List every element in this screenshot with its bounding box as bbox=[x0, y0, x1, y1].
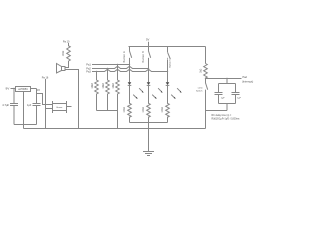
wire 5V top rail bbox=[129, 46, 206, 48]
svg-text:100Ω: 100Ω bbox=[124, 107, 126, 113]
wire regulator ground pin bbox=[23, 92, 25, 129]
wire speaker to ground rail bbox=[65, 70, 79, 129]
svg-text:Limit: Limit bbox=[198, 87, 203, 90]
node Pa 16 label bbox=[42, 76, 49, 79]
wire Pa3 bus with hops bbox=[92, 69, 168, 71]
node 5V supply label bbox=[146, 38, 149, 42]
svg-text:100Ω: 100Ω bbox=[162, 107, 164, 113]
capacitor C3 1uF bbox=[215, 84, 226, 104]
resistor R7 10k pulldown bbox=[112, 65, 119, 111]
svg-text:1µF: 1µF bbox=[237, 97, 241, 99]
svg-text:RC delay time (s) =: RC delay time (s) = bbox=[212, 114, 232, 117]
svg-text:100Ω: 100Ω bbox=[63, 50, 65, 56]
resistor R1 100 ohm (LED A) bbox=[124, 85, 131, 122]
junction cap bank bbox=[226, 78, 227, 79]
wire regulator output bbox=[31, 88, 37, 90]
svg-text:10kΩ: 10kΩ bbox=[102, 83, 105, 89]
wire pulldown common bbox=[97, 111, 118, 129]
svg-text:100Ω: 100Ω bbox=[143, 107, 145, 113]
svg-text:10kΩ: 10kΩ bbox=[91, 83, 94, 89]
note RC delay formula bbox=[212, 114, 241, 120]
node Pa2 label bbox=[86, 68, 91, 71]
wire cap bank bottom bbox=[219, 104, 236, 111]
switch Button C bbox=[167, 47, 172, 72]
capacitor C2 1uF bbox=[27, 89, 40, 125]
LED D3 bbox=[166, 82, 182, 99]
junction Pa3 / branch C bbox=[167, 71, 168, 72]
wire to ground symbol bbox=[148, 123, 150, 152]
wire branch A bbox=[129, 65, 131, 83]
svg-text:Switch: Switch bbox=[196, 90, 203, 93]
wire branch C bbox=[167, 72, 169, 83]
resistor R4 100 ohm (speaker) bbox=[63, 43, 70, 61]
resistor R5 10k pulldown bbox=[91, 72, 98, 111]
svg-text:5V: 5V bbox=[36, 88, 41, 92]
wire LED common bbox=[130, 122, 168, 124]
wire caps bottom rail bbox=[14, 124, 37, 126]
svg-text:1µF: 1µF bbox=[27, 104, 32, 107]
junction C1 top bbox=[13, 88, 14, 89]
wire 5V stub bbox=[148, 42, 150, 47]
wire ground rail bbox=[24, 128, 206, 130]
LED D1 bbox=[128, 82, 144, 99]
svg-text:Button B: Button B bbox=[142, 51, 145, 63]
svg-text:Buzzer: Buzzer bbox=[57, 106, 63, 109]
svg-text:(Interrupt): (Interrupt) bbox=[242, 79, 253, 83]
node Pa1 label bbox=[86, 64, 91, 67]
svg-text:Pad: Pad bbox=[243, 76, 248, 79]
wire interrupt node to pad bbox=[206, 78, 242, 80]
svg-text:10kΩ: 10kΩ bbox=[112, 83, 115, 89]
wire branch B bbox=[148, 69, 150, 83]
resistor R2 100 ohm (LED B) bbox=[143, 85, 150, 122]
node Pa 10 label bbox=[63, 40, 70, 43]
wire 5V branch to buzzer bbox=[37, 94, 53, 105]
node Pad (Interrupt) label bbox=[242, 76, 253, 83]
ground bbox=[143, 152, 154, 156]
switch SW4 limit switch bbox=[196, 79, 208, 111]
node 9V label bbox=[6, 87, 11, 91]
speaker LS1 bbox=[57, 64, 66, 74]
svg-text:Button C: Button C bbox=[169, 59, 172, 68]
junction 5V rail bbox=[148, 46, 149, 47]
svg-text:1kΩ: 1kΩ bbox=[201, 68, 203, 72]
capacitor C4 1uF bbox=[232, 84, 242, 104]
junction ground rail bbox=[148, 128, 149, 129]
resistor R6 10k pulldown bbox=[102, 69, 109, 111]
buzzer LS2 bbox=[53, 101, 72, 113]
svg-text:Button A: Button A bbox=[123, 51, 126, 63]
resistor R3 100 ohm (LED C) bbox=[162, 85, 169, 122]
LED D2 bbox=[147, 82, 163, 99]
wire Pa2 bus with hops bbox=[92, 66, 149, 68]
svg-text:1µF: 1µF bbox=[221, 97, 225, 99]
svg-text:Pa1: Pa1 bbox=[86, 64, 91, 67]
node Pa3 label bbox=[86, 71, 91, 74]
svg-text:Pa 16: Pa 16 bbox=[42, 76, 49, 79]
node 5V label (regulator output) bbox=[36, 88, 41, 92]
svg-text:Pa 10: Pa 10 bbox=[63, 40, 70, 43]
junction Pa1 / R7 bbox=[117, 64, 118, 65]
junction interrupt node bbox=[205, 78, 206, 79]
svg-text:5V: 5V bbox=[146, 38, 149, 42]
wire Pa1 bus bbox=[92, 64, 130, 66]
svg-text:Pa3: Pa3 bbox=[86, 71, 91, 74]
svg-text:9V: 9V bbox=[6, 87, 11, 91]
capacitor C1 4.7uF bbox=[2, 89, 18, 125]
switch Button A bbox=[123, 47, 132, 65]
junction Pa3 / R5 bbox=[96, 71, 97, 72]
switch Button B bbox=[142, 47, 151, 69]
regulator U1 uA7805 bbox=[16, 87, 31, 92]
svg-text:R(kΩ)*(1µF+1µF) / 1000ms: R(kΩ)*(1µF+1µF) / 1000ms bbox=[212, 119, 241, 121]
junction Pa1 / branch A bbox=[129, 64, 130, 65]
junction regulator gnd / cap rail bbox=[23, 124, 24, 125]
resistor R8 1k bbox=[201, 64, 208, 79]
wire 9V to regulator bbox=[11, 88, 16, 90]
wire limit switch to ground rail bbox=[206, 111, 228, 129]
wire cap bank top bbox=[219, 83, 236, 85]
wire cap bank stub bbox=[226, 79, 228, 84]
svg-text:uA7805C: uA7805C bbox=[18, 88, 28, 91]
junction Pa2 / R6 bbox=[107, 68, 108, 69]
wire resistor to speaker bbox=[65, 61, 69, 68]
junction Pa2 / branch B bbox=[148, 68, 149, 69]
wire Pa16 to buzzer bbox=[46, 79, 53, 129]
wire 5V rail to R8 bbox=[205, 47, 207, 64]
svg-text:4.7µF: 4.7µF bbox=[2, 103, 9, 107]
